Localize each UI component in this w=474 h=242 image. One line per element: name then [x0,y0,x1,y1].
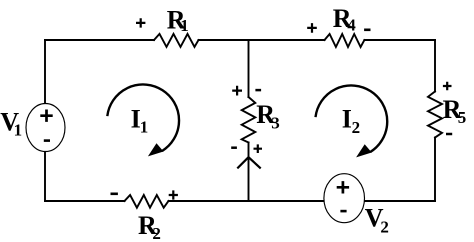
resistor R4 [325,34,365,47]
mesh current I1 arrow arc [107,84,179,156]
svg-text:1: 1 [180,16,189,35]
svg-text:1: 1 [14,120,23,139]
label R5 [443,95,467,127]
V1 minus sign [44,139,50,142]
minus sign of R2 [111,193,118,196]
svg-text:I: I [342,105,352,134]
label I2 [342,105,360,137]
svg-text:2: 2 [352,118,361,137]
wire top-middle segment [199,39,325,41]
label V1 [0,108,22,140]
resistor R1 [154,34,199,47]
svg-text:2: 2 [380,218,389,237]
V2 minus sign [340,210,346,213]
plus sign at R3 top [232,86,242,96]
svg-text:2: 2 [152,224,161,242]
svg-text:1: 1 [140,117,149,136]
plus sign of R4 [307,23,317,33]
label R2 [138,211,161,242]
label I1 [131,105,149,137]
plus sign of R1 [136,18,145,27]
wire bottom-left segment [45,200,125,202]
label R3 [256,100,280,132]
wire right lower segment [434,138,436,202]
minus sign at R3 bottom [231,146,237,149]
wire top-right segment [364,39,435,41]
label R1 [167,5,189,34]
plus sign of R2 [169,190,178,199]
svg-text:5: 5 [458,108,467,127]
resistor R2 [125,195,169,208]
minus sign of R4 [364,28,370,31]
svg-text:4: 4 [347,16,356,35]
wire middle lower segment [248,143,250,202]
minus sign of R5 [446,133,452,136]
resistor R3 [242,97,256,143]
voltage source V2 [324,174,365,223]
current direction arrow on middle branch [237,157,260,168]
svg-text:3: 3 [271,113,280,132]
resistor R5 [428,92,442,138]
label R4 [333,4,357,34]
voltage source V1 [26,104,65,152]
wire top-left segment [45,39,154,41]
wire right upper segment [434,40,436,92]
V2 plus sign [337,181,349,193]
plus sign at R3 bottom [254,144,263,153]
plus sign of R5 [443,82,452,91]
wire middle upper segment [248,40,250,97]
wire bottom-right segment [169,200,436,202]
mesh current I2 arrow arc [316,85,388,157]
minus sign at R3 top [255,89,261,92]
V1 plus sign [40,110,52,122]
label V2 [365,203,389,236]
wire left branch [44,40,46,201]
